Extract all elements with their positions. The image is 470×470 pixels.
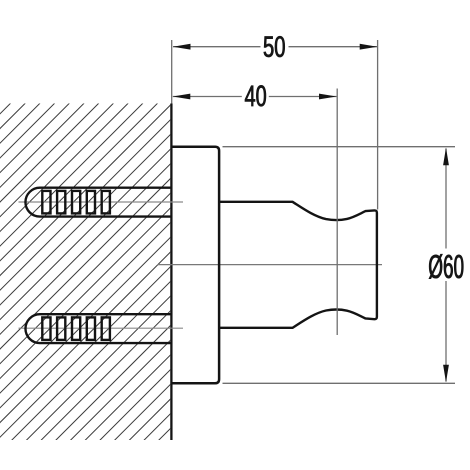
arrow diameter60 bottom xyxy=(443,365,449,383)
dimension line 40 right segment xyxy=(269,96,337,98)
flange wall plate xyxy=(171,147,219,384)
wall hatching xyxy=(0,100,470,445)
dimension line diameter60 bottom segment xyxy=(445,281,447,382)
wall face line xyxy=(170,104,172,441)
wall plug screw 1 ribs xyxy=(42,191,110,214)
holder body profile xyxy=(219,202,377,328)
label diameter60 xyxy=(429,254,463,279)
dimension line 40 left segment xyxy=(173,96,242,98)
arrow diameter60 top xyxy=(443,148,449,166)
wall plug screw 2 outline xyxy=(25,314,171,343)
arrow 50 right xyxy=(360,44,378,50)
dimension line diameter60 top segment xyxy=(445,149,447,249)
extension line flange bottom xyxy=(223,382,456,384)
centerline screw 2 xyxy=(19,327,184,329)
wall plug screw 1 outline xyxy=(25,188,171,217)
arrow 50 left xyxy=(173,44,191,50)
extension line wall face top xyxy=(171,40,173,104)
label 40 xyxy=(245,85,266,106)
dimension line 50 left segment xyxy=(173,46,261,48)
extension line flange top xyxy=(223,146,456,148)
arrow 40 left xyxy=(173,94,191,100)
wall plug screw 2 ribs xyxy=(42,317,110,340)
centerline screw 1 xyxy=(19,201,184,203)
extension line 40 right xyxy=(336,89,338,336)
label 50 xyxy=(264,36,285,57)
arrow 40 right xyxy=(319,94,337,100)
centerline holder axis xyxy=(158,264,383,266)
dimension line 50 right segment xyxy=(289,46,378,48)
extension line 50 right xyxy=(377,40,379,210)
